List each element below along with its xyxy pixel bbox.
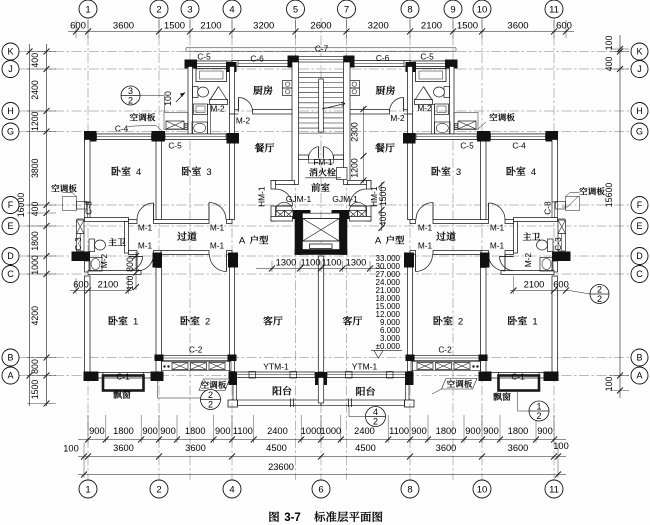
svg-text:900: 900 — [215, 426, 231, 436]
svg-text:E: E — [7, 221, 13, 231]
right grid bubbles — [631, 43, 648, 60]
svg-text:11: 11 — [549, 4, 559, 15]
svg-text:M-1: M-1 — [138, 241, 153, 251]
svg-text:GJM-1: GJM-1 — [332, 194, 358, 204]
svg-text:1200: 1200 — [30, 111, 40, 131]
svg-text:C-3: C-3 — [553, 237, 563, 251]
room label dining right — [375, 143, 384, 152]
corridor bottom wall segments — [129, 251, 138, 255]
black columns at A: unit walls — [229, 372, 238, 386]
unit west wall x=232 segments (dining west / bedroom3 east) — [230, 114, 235, 139]
vertical dim 2300 1200 right of stairwell — [363, 106, 365, 183]
svg-text:2: 2 — [156, 484, 161, 495]
svg-text:7: 7 — [344, 4, 349, 15]
room label kitchen left — [253, 86, 262, 95]
svg-text:4: 4 — [136, 167, 141, 178]
svg-text:2: 2 — [128, 96, 133, 106]
svg-text:1500: 1500 — [30, 380, 40, 400]
svg-text:F: F — [8, 200, 14, 210]
room label bedroom3 right — [431, 167, 440, 176]
room label kitchen right — [376, 86, 385, 95]
svg-text:M-1: M-1 — [490, 241, 505, 251]
elevator counterweight — [310, 244, 333, 249]
svg-text:C-1: C-1 — [511, 372, 525, 382]
AC ledge at H line beside bathroom — [164, 113, 188, 130]
AC board label outer-left — [51, 184, 59, 192]
svg-text:800: 800 — [30, 359, 40, 374]
svg-text:2300: 2300 — [350, 122, 360, 142]
room label corridor right — [436, 232, 445, 241]
stair bottom door jamb stubs — [299, 155, 309, 160]
west exterior wall of bedroom4 — [85, 140, 91, 203]
svg-text:900: 900 — [483, 426, 499, 436]
bathroom north wall with window C-5 left and right — [188, 61, 232, 67]
svg-text:3600: 3600 — [113, 21, 134, 32]
svg-text:3600: 3600 — [436, 443, 457, 453]
stair direction arrow — [322, 104, 345, 110]
svg-text:4: 4 — [373, 407, 378, 417]
bathroom washer oval — [192, 122, 208, 134]
svg-text:1300: 1300 — [346, 258, 367, 268]
svg-text:400: 400 — [604, 57, 614, 72]
svg-text:J: J — [8, 64, 13, 74]
AC shelf at F outside left — [63, 197, 77, 211]
left grid bubbles — [2, 43, 19, 60]
svg-text:C-5: C-5 — [460, 141, 474, 151]
svg-text:C-6: C-6 — [376, 53, 390, 63]
bedroom4/bedroom3 party wall — [156, 140, 162, 220]
svg-text:100: 100 — [63, 444, 79, 454]
vertical dims 800 100 left corridor — [135, 252, 137, 290]
master bath south wall (bedroom1 north) — [88, 271, 141, 275]
svg-text:C-8: C-8 — [84, 201, 94, 215]
svg-text:9: 9 — [450, 4, 455, 15]
svg-text:1: 1 — [133, 317, 138, 328]
front room HM-1 door arc — [276, 189, 293, 206]
svg-text:4: 4 — [531, 167, 536, 178]
corridor top wall segments with door openings — [129, 220, 138, 224]
svg-text:4500: 4500 — [355, 443, 376, 453]
svg-text:C-8: C-8 — [543, 201, 553, 215]
elevator shaft black walls — [292, 210, 311, 214]
svg-text:H: H — [636, 106, 643, 116]
svg-text:2: 2 — [597, 285, 602, 295]
svg-text:2: 2 — [536, 411, 541, 421]
svg-text:2: 2 — [208, 390, 213, 400]
corridor door M-1 to bedroom4 (arc up) — [137, 203, 154, 220]
living room party wall between units — [318, 256, 323, 372]
svg-text:GJM-1: GJM-1 — [286, 194, 312, 204]
svg-text:FM-1: FM-1 — [313, 157, 333, 167]
svg-text:C-5: C-5 — [197, 52, 211, 62]
svg-text:1100: 1100 — [233, 426, 253, 436]
svg-text:1800: 1800 — [113, 426, 134, 436]
svg-text:M-2: M-2 — [523, 252, 533, 267]
room label bedroom4 left — [112, 167, 121, 176]
room label bedroom3 left — [182, 167, 191, 176]
stair center rail — [319, 79, 324, 132]
svg-text:HM-1: HM-1 — [369, 186, 379, 207]
svg-text:10: 10 — [477, 4, 488, 15]
svg-text:M-2: M-2 — [210, 104, 225, 114]
svg-text:A: A — [7, 371, 13, 381]
black columns at A row — [84, 372, 99, 382]
master bath east wall — [125, 222, 129, 254]
left dimension line — [46, 44, 48, 406]
kitchen west wall (shared with bathroom) — [230, 67, 235, 115]
svg-text:2400: 2400 — [354, 426, 375, 436]
svg-text:G: G — [636, 127, 643, 137]
svg-text:800: 800 — [125, 257, 135, 272]
room label balcony right — [356, 387, 365, 396]
bathroom block left: bathtub — [196, 69, 227, 82]
GJM-1 double leaf arcs — [276, 202, 292, 210]
room label bedroom2 right — [433, 316, 442, 325]
svg-text:C-1: C-1 — [116, 372, 130, 382]
svg-text:YTM-1: YTM-1 — [352, 362, 378, 372]
figure title — [269, 511, 279, 521]
svg-text:100: 100 — [553, 441, 569, 451]
svg-text:C-5: C-5 — [168, 141, 182, 151]
svg-text:3: 3 — [128, 86, 133, 96]
fire hydrant box — [337, 168, 348, 180]
svg-text:8: 8 — [407, 484, 412, 495]
bedroom1 south wall at A — [88, 373, 159, 379]
svg-text:1100: 1100 — [322, 258, 342, 268]
svg-text:2100: 2100 — [524, 280, 545, 290]
svg-text:D: D — [7, 251, 14, 261]
room label bedroom4 right — [506, 167, 515, 176]
svg-text:4: 4 — [229, 484, 234, 495]
svg-text:M-1: M-1 — [418, 223, 433, 233]
svg-text:5: 5 — [293, 4, 298, 15]
svg-text:2100: 2100 — [98, 280, 119, 290]
bottom dimension row 3 total 23600 — [78, 474, 566, 476]
svg-text:M-1: M-1 — [210, 241, 225, 251]
room label living right — [343, 316, 352, 325]
svg-text:2: 2 — [597, 294, 602, 304]
svg-text:1000: 1000 — [30, 255, 40, 275]
kitchen north wall with window C-6 left and right — [232, 61, 296, 67]
svg-text:1800: 1800 — [508, 426, 529, 436]
bathroom inner south wall + pointed door M-2 — [210, 100, 228, 105]
room label front room — [311, 183, 320, 192]
svg-text:2: 2 — [205, 317, 210, 328]
svg-text:C-5: C-5 — [420, 52, 434, 62]
svg-text:3600: 3600 — [508, 443, 529, 453]
bedroom2 south wall window C-2 — [159, 356, 232, 361]
svg-text:2100: 2100 — [200, 21, 221, 32]
svg-text:M-2: M-2 — [390, 113, 405, 123]
svg-text:M-2: M-2 — [236, 116, 251, 126]
vertical dim 1500 400 right of front room — [381, 182, 383, 231]
svg-text:1100: 1100 — [301, 258, 321, 268]
svg-text:8: 8 — [407, 4, 412, 15]
bedroom north wall at G with windows C-4 C-5 — [88, 134, 232, 140]
corridor door M-1 down-left (arc down) — [137, 255, 154, 272]
bay window label left — [113, 391, 121, 399]
YTM-1 door jamb marks — [249, 372, 256, 379]
svg-text:600: 600 — [553, 280, 569, 290]
kitchen south wall with door opening M-2 — [253, 110, 296, 115]
balcony rails — [238, 400, 322, 406]
svg-text:YTM-1: YTM-1 — [263, 362, 289, 372]
svg-text:D: D — [636, 251, 643, 261]
svg-text:1500: 1500 — [164, 21, 185, 32]
front room west wall with HM-1 door — [271, 181, 276, 190]
svg-text:2400: 2400 — [30, 80, 40, 100]
elevator cab with X — [303, 219, 340, 242]
svg-text:B: B — [7, 353, 13, 363]
corridor door M-1 to bedroom2 (arc down) — [210, 255, 227, 272]
svg-text:1100: 1100 — [389, 426, 409, 436]
svg-text:3600: 3600 — [507, 21, 528, 32]
top grid bubbles — [79, 0, 97, 18]
svg-text:M-1: M-1 — [490, 223, 505, 233]
corridor door M-1 to bedroom3 (arc up) — [209, 203, 226, 220]
bay window label right — [493, 393, 501, 401]
svg-text:3: 3 — [206, 167, 211, 178]
svg-text:2: 2 — [156, 4, 161, 15]
svg-text:4500: 4500 — [266, 443, 287, 453]
svg-text:1: 1 — [532, 317, 537, 328]
room label bedroom2 left — [181, 316, 190, 325]
bottom dimension row 1 — [78, 439, 566, 441]
black columns at D row — [153, 253, 163, 268]
wall under GJM panels — [271, 217, 293, 222]
svg-text:2600: 2600 — [310, 21, 331, 32]
AC board label outer-right — [579, 187, 587, 195]
bathroom block left: west wall — [188, 67, 193, 137]
svg-text:B: B — [636, 353, 642, 363]
svg-text:C-6: C-6 — [250, 54, 264, 64]
svg-text:A: A — [636, 371, 642, 381]
bedroom1/bedroom2 party wall — [156, 268, 162, 373]
svg-text:C-4: C-4 — [512, 141, 526, 151]
svg-text:600: 600 — [70, 21, 86, 32]
bathroom block left: toilet — [193, 87, 199, 98]
svg-text:2: 2 — [458, 317, 463, 328]
stair treads — [299, 72, 343, 74]
interior dim 1300 1100 1100 1300 below elevator — [256, 268, 386, 270]
svg-text:K: K — [636, 47, 642, 57]
svg-text:M-2: M-2 — [417, 103, 432, 113]
svg-text:900: 900 — [160, 426, 176, 436]
svg-text:C-2: C-2 — [438, 345, 452, 355]
svg-text:G: G — [7, 127, 14, 137]
svg-text:900: 900 — [465, 426, 481, 436]
svg-text:M-1: M-1 — [138, 223, 153, 233]
black columns at G — [84, 131, 97, 142]
svg-text:A: A — [239, 236, 246, 247]
svg-text:3: 3 — [456, 167, 461, 178]
svg-text:900: 900 — [89, 426, 105, 436]
svg-text:H: H — [7, 106, 14, 116]
top dimension line — [68, 31, 574, 33]
bedroom4 / master-bath divider wall — [85, 218, 129, 222]
AC strip below bedroom2 with x-boxes — [162, 362, 232, 371]
svg-text:1300: 1300 — [276, 258, 297, 268]
svg-text:6: 6 — [318, 484, 323, 495]
svg-text:100: 100 — [604, 377, 614, 392]
svg-text:C-4: C-4 — [115, 124, 129, 134]
svg-text:M-1: M-1 — [418, 241, 433, 251]
svg-text:3200: 3200 — [253, 21, 274, 32]
right dimension line — [619, 35, 621, 398]
callout circle 1/2 bottom-right bay window with leader — [517, 391, 519, 412]
svg-text:1800: 1800 — [30, 231, 40, 251]
room label bedroom1 left — [109, 316, 118, 325]
svg-text:F: F — [637, 200, 643, 210]
svg-text:C-3: C-3 — [73, 237, 83, 251]
svg-text:C-7: C-7 — [315, 44, 329, 54]
svg-text:C: C — [636, 269, 643, 279]
svg-text:900: 900 — [537, 426, 553, 436]
master bath washbasin — [89, 258, 102, 272]
master bath west wall lower — [85, 261, 91, 272]
room label bedroom1 right — [508, 316, 517, 325]
svg-text:100: 100 — [163, 91, 173, 106]
svg-text:1: 1 — [85, 484, 90, 495]
callout circle 2/2 bottom-left AC board with leader and label — [199, 379, 230, 391]
svg-text:400: 400 — [378, 212, 388, 227]
svg-text:3-7: 3-7 — [284, 512, 301, 524]
AC board label top-right — [489, 113, 497, 121]
black column at D left exterior — [72, 252, 91, 262]
svg-text:4: 4 — [229, 4, 234, 15]
svg-text:1500: 1500 — [457, 21, 478, 32]
top eave ledge above kitchens and stairwell — [186, 47, 456, 49]
svg-text:E: E — [636, 221, 642, 231]
svg-text:100: 100 — [604, 36, 614, 51]
bay window C-1 (thick) — [103, 376, 144, 391]
room label living left — [263, 316, 272, 325]
svg-text:J: J — [637, 64, 642, 74]
bedroom1 west exterior wall — [85, 276, 91, 372]
svg-text:1800: 1800 — [436, 426, 457, 436]
room label corridor left — [177, 232, 186, 241]
svg-text:1: 1 — [536, 402, 541, 412]
balcony left end post — [228, 400, 238, 407]
stairwell west and east walls — [292, 62, 299, 185]
balcony center divider below party wall — [318, 378, 323, 404]
callout circle 3/2 top-left with leader — [121, 86, 140, 105]
stairwell north wall with window C-7 — [291, 349, 293, 351]
svg-text:1000: 1000 — [321, 426, 342, 436]
svg-text:2400: 2400 — [267, 426, 288, 436]
master bath toilet — [89, 239, 95, 252]
AC board label top-left — [130, 113, 138, 121]
elevator door detail — [311, 212, 332, 214]
bathroom square basin — [194, 104, 208, 115]
stair bottom fire door FM-1 double arcs — [308, 147, 318, 159]
svg-text:1800: 1800 — [185, 426, 206, 436]
room label dining left — [255, 143, 264, 152]
bottom grid bubbles — [79, 480, 97, 498]
svg-text:11: 11 — [549, 484, 559, 495]
svg-text:3600: 3600 — [113, 443, 134, 453]
C-8 window in west wall — [85, 202, 91, 218]
room label balcony left — [273, 386, 282, 395]
dim 2100 600 right (bath width) — [510, 290, 572, 292]
svg-text:C: C — [7, 269, 14, 279]
svg-text:400: 400 — [30, 202, 40, 217]
kitchen stove fixtures — [283, 81, 294, 89]
svg-text:600: 600 — [73, 280, 89, 290]
master bath door M-2 arc — [129, 257, 143, 271]
bathroom partition by basin — [208, 105, 211, 137]
svg-text:23600: 23600 — [268, 462, 294, 472]
svg-text:900: 900 — [411, 426, 427, 436]
AC panel x-box at H ledge — [166, 121, 184, 129]
callout circle 2/2 outside right with leader — [572, 291, 590, 294]
svg-text:900: 900 — [142, 426, 158, 436]
kitchen door M-2 arc — [239, 98, 253, 112]
callout circle 4/2 below right balcony with leader — [348, 406, 350, 417]
svg-text:C-2: C-2 — [189, 345, 203, 355]
svg-text:M-2: M-2 — [99, 253, 109, 268]
svg-text:600: 600 — [556, 21, 572, 32]
bottom dimension row 2 — [78, 456, 566, 458]
svg-text:1: 1 — [85, 4, 90, 15]
master bath west bay window C-3 — [77, 220, 85, 234]
svg-text:3: 3 — [187, 4, 192, 15]
svg-text:2: 2 — [373, 417, 378, 427]
svg-text:3800: 3800 — [30, 158, 40, 178]
svg-text:M-1: M-1 — [210, 223, 225, 233]
svg-text:2: 2 — [208, 400, 213, 410]
svg-text:10: 10 — [477, 484, 488, 495]
GJM-1 shaft door panels beside elevator — [276, 211, 285, 219]
YTM-1 balcony door wall at A — [237, 372, 316, 378]
AC board label bottom-right with leader — [442, 379, 478, 390]
svg-text:400: 400 — [30, 53, 40, 68]
svg-text:2100: 2100 — [421, 21, 442, 32]
svg-text:1000: 1000 — [301, 426, 322, 436]
svg-text:K: K — [7, 47, 13, 57]
svg-text:1200: 1200 — [350, 158, 360, 178]
svg-text:3600: 3600 — [185, 443, 206, 453]
tiny shaft box at AC ledge end — [185, 123, 188, 129]
svg-text:A: A — [375, 236, 382, 247]
svg-text:±0.000: ±0.000 — [376, 342, 401, 351]
black columns top row — [185, 60, 198, 69]
room label master bath left — [108, 238, 116, 246]
svg-text:1500: 1500 — [378, 187, 388, 207]
front room top walls — [271, 181, 295, 185]
svg-text:3200: 3200 — [368, 21, 389, 32]
svg-text:100: 100 — [125, 276, 135, 291]
svg-text:4200: 4200 — [30, 306, 40, 326]
svg-text:15600: 15600 — [604, 183, 614, 208]
room label master bath right — [523, 232, 531, 240]
svg-text:HM-1: HM-1 — [257, 186, 267, 207]
dim 600 2100 left (bath width) — [70, 290, 132, 292]
